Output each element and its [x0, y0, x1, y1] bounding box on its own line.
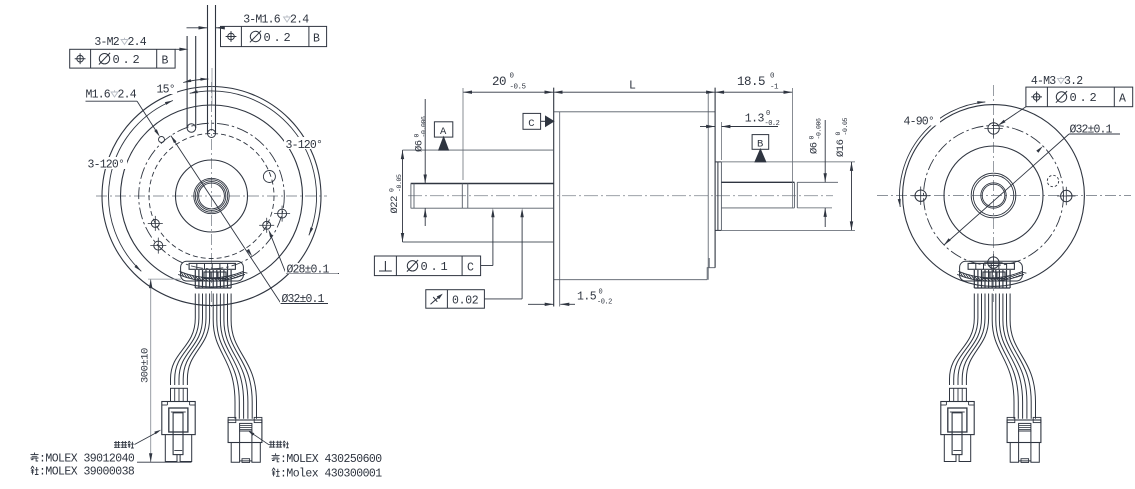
svg-text:-1: -1 [770, 84, 779, 92]
FCF perp leader [481, 265, 493, 267]
label dia32+-0.1 with diameter leader [171, 136, 281, 304]
FCF circular runout 0.02 [426, 290, 485, 309]
wire [179, 294, 203, 386]
left view vertical centerline [211, 82, 213, 310]
svg-text:-0.05: -0.05 [842, 117, 849, 135]
wire grommet body [181, 261, 244, 281]
right view bolt circle dash-dot [924, 126, 1064, 266]
datum C flag [523, 113, 541, 129]
svg-text:3.2: 3.2 [1064, 75, 1083, 88]
dimension arc 15deg [183, 79, 208, 83]
svg-text:B: B [162, 55, 169, 68]
left view body circle D41 [121, 105, 303, 287]
connector 2 plug [1019, 431, 1031, 461]
svg-text:0: 0 [599, 289, 603, 297]
front shaft groove [461, 184, 463, 209]
wire [231, 294, 256, 419]
middle view centerline [408, 195, 833, 197]
right view vertical centerline [993, 85, 995, 302]
wire [962, 294, 985, 386]
dimension dia16 0/-0.05 [851, 162, 853, 231]
left view sensor hole [263, 171, 275, 183]
connector 1 latch window [948, 408, 967, 432]
label dia28+-0.1 with leader [270, 233, 286, 274]
svg-text:0: 0 [413, 134, 420, 138]
svg-text:L: L [629, 80, 636, 93]
connector 1 legs [944, 435, 956, 462]
svg-text:0: 0 [835, 132, 842, 136]
svg-text:15°: 15° [157, 84, 175, 97]
connector label leader right [269, 441, 275, 448]
terminal pin 1 (left, from M2 hole at 105deg) [186, 36, 188, 128]
M1.6 hole at 206deg [151, 219, 159, 227]
rear boss D16 [715, 161, 721, 163]
left view hub boss circle D16 [176, 160, 248, 232]
wire [228, 294, 253, 419]
wire [217, 294, 240, 419]
M2 hole at 223deg [154, 241, 163, 250]
body left face / datum C surface [553, 88, 555, 307]
svg-text:Ø22: Ø22 [389, 196, 401, 214]
motor body outline [554, 111, 716, 113]
svg-text:Ø32±0.1: Ø32±0.1 [1070, 124, 1113, 137]
svg-text:4-90°: 4-90° [904, 116, 935, 129]
terminal pin 2 (center, from M1.6 hole at 90deg) [207, 5, 209, 134]
right view horizontal centerline [877, 195, 1131, 197]
svg-text:3-120°: 3-120° [286, 139, 323, 152]
wire [220, 294, 243, 419]
connector 2 housing (MOLEX 430250600) [1007, 420, 1041, 443]
wire [966, 294, 988, 386]
left view horizontal centerline [96, 195, 327, 197]
M3 hole top [988, 123, 999, 134]
right wire harness [941, 261, 1041, 462]
svg-text:0.1: 0.1 [421, 260, 451, 274]
svg-text:Ø16: Ø16 [835, 139, 847, 157]
svg-text:Ø6: Ø6 [414, 140, 426, 152]
dimension arc 4-90deg [899, 102, 985, 207]
svg-text:2.4: 2.4 [290, 14, 309, 27]
svg-text:300±10: 300±10 [140, 348, 152, 383]
svg-text:0: 0 [808, 136, 815, 140]
svg-text:0.2: 0.2 [1070, 91, 1100, 105]
FCF position dia0.2 A (M3) [1026, 87, 1133, 107]
dimension L (body length) [554, 91, 716, 93]
connector 1 tongue [173, 413, 183, 455]
svg-text:Ø6: Ø6 [809, 142, 821, 154]
svg-text:3-120°: 3-120° [88, 159, 125, 172]
wire [954, 294, 978, 386]
left view shaft rings [194, 178, 229, 213]
right view outer circle [903, 105, 1085, 287]
svg-text:3-M2: 3-M2 [94, 36, 119, 49]
svg-text::MOLEX 39012040: :MOLEX 39012040 [39, 452, 135, 465]
svg-text:M1.6: M1.6 [86, 89, 111, 102]
body internal line right [707, 92, 709, 280]
front shaft D6 [411, 183, 554, 185]
right view boss circle D22 [944, 146, 1043, 245]
svg-text:2.4: 2.4 [128, 36, 147, 49]
dia32 text [281, 303, 328, 305]
wire [950, 294, 975, 386]
grommet terminal row [189, 263, 235, 269]
left wire harness [31, 261, 383, 480]
wire grommet body [960, 261, 1023, 281]
svg-text:3-M1.6: 3-M1.6 [243, 14, 281, 27]
connector 2 crimp block [240, 423, 252, 431]
wire grommet hatch band [178, 274, 245, 281]
svg-text:-0.006: -0.006 [421, 116, 428, 138]
wire [187, 294, 209, 386]
datum B flag [752, 135, 769, 150]
connector 1 latch window [169, 408, 188, 432]
wire bundle upper block [194, 270, 196, 288]
wire [1007, 294, 1032, 419]
body bottom-right notch [707, 268, 715, 280]
svg-text:B: B [313, 32, 320, 45]
dimension dia22 0/-0.05 [402, 150, 404, 242]
dimension 1.3 0/-0.2 [700, 126, 715, 128]
wire [999, 294, 1022, 419]
FCF leader to M3 top hole [1000, 107, 1026, 125]
svg-text:20: 20 [492, 75, 506, 89]
M1.6 hole at -28deg [263, 221, 271, 229]
rear shaft end chamfer [793, 182, 795, 208]
connector label leader left [114, 441, 120, 448]
svg-text:4-M3: 4-M3 [1031, 75, 1056, 88]
svg-text:C: C [528, 118, 534, 130]
M2 hole at -14deg [278, 209, 287, 218]
left view bolt circle D28 dashed [149, 134, 274, 259]
connector 2 legs [231, 443, 239, 463]
svg-text:1.5: 1.5 [577, 291, 597, 304]
svg-text:0: 0 [766, 110, 770, 118]
connector 2 housing (MOLEX 430250600) [228, 420, 262, 443]
wire [1010, 294, 1035, 419]
connector 1 tongue [952, 413, 962, 455]
dimension 1.5 0/-0.2 [528, 303, 554, 305]
label dia32+-0.1 right view [944, 134, 1069, 245]
connector 1 housing (MOLEX 39012040) [950, 388, 967, 401]
svg-text:0.2: 0.2 [113, 53, 143, 67]
rear boss face [720, 162, 722, 231]
text MOLEX part numbers left [31, 453, 39, 462]
svg-text:C: C [467, 262, 474, 275]
wire [1003, 294, 1027, 419]
dimension arc 3-120 right (M1.6 holes) [190, 91, 317, 235]
svg-text::MOLEX 430250600: :MOLEX 430250600 [280, 453, 382, 466]
FCF perpendicularity dia0.1 C [374, 256, 480, 276]
svg-text:0.02: 0.02 [452, 294, 479, 307]
right view sensor hole [1047, 175, 1058, 186]
svg-text:Ø32±0.1: Ø32±0.1 [282, 293, 325, 306]
front boss cylinder D22 [403, 149, 554, 151]
svg-text:-0.2: -0.2 [765, 120, 780, 128]
wire [171, 294, 196, 386]
dimension 18.5 0/-1 [715, 91, 792, 93]
wire [224, 294, 248, 419]
wire [175, 294, 199, 386]
dimension: pin2 width at top [187, 27, 208, 29]
svg-text:18.5: 18.5 [737, 75, 765, 89]
connector 1 legs [165, 435, 177, 462]
wire [183, 294, 206, 386]
M3 hole right [1061, 190, 1072, 201]
svg-text:0: 0 [510, 73, 515, 81]
connector 2 crimp block [1019, 423, 1031, 431]
wire [996, 294, 1019, 419]
connector 2 plug [240, 431, 252, 461]
svg-text:1.3: 1.3 [745, 113, 765, 126]
svg-text:Ø28±0.1: Ø28±0.1 [287, 264, 330, 277]
svg-text::Molex 430300001: :Molex 430300001 [280, 467, 382, 480]
grommet terminal row [968, 263, 1014, 269]
FCF position dia0.2 B (M2) [70, 49, 175, 68]
text MOLEX part numbers right [272, 453, 280, 462]
svg-text:A: A [1119, 93, 1126, 106]
dimension dia6 0/-0.006 right [824, 120, 826, 182]
svg-text::MOLEX 39000038: :MOLEX 39000038 [39, 465, 135, 478]
wire [213, 294, 235, 419]
pin2 inner thread line [211, 68, 213, 104]
left view outer flange circle D49 [102, 87, 321, 306]
svg-text:-0.006: -0.006 [816, 118, 823, 140]
svg-text:-0.05: -0.05 [396, 174, 403, 192]
rear shaft D6 [721, 181, 794, 183]
M3 hole bottom [988, 257, 999, 268]
dimension 20 0/-0.5 [463, 91, 554, 93]
svg-text:2.4: 2.4 [118, 89, 137, 102]
body internal line left (1.5 step) [559, 112, 561, 307]
body right face [714, 88, 716, 268]
connector 1 housing (MOLEX 39012040) [171, 388, 188, 401]
connector 2 legs [1010, 443, 1018, 463]
svg-text:0: 0 [389, 188, 396, 192]
M3 hole left [915, 190, 926, 201]
svg-text:0: 0 [770, 73, 775, 81]
FCF runout leader [484, 298, 522, 300]
left view bolt circle D32 dash-dot [139, 123, 285, 269]
svg-text:-0.5: -0.5 [510, 84, 527, 92]
wire [992, 294, 1014, 419]
FCF leader to pin1 [175, 48, 181, 50]
datum A flag [434, 122, 452, 137]
FCF position dia0.2 B (M1.6) [221, 26, 327, 46]
wire [958, 294, 982, 386]
right view shaft rings [971, 173, 1016, 218]
dimension dia6 0/-0.006 left [424, 99, 426, 184]
svg-text:0.2: 0.2 [264, 31, 294, 45]
svg-text:-0.2: -0.2 [597, 299, 612, 307]
label M1.6 depth 2.4 with leader [84, 88, 139, 100]
wire grommet hatch band [957, 274, 1024, 281]
dimension 300+-10 [150, 279, 152, 462]
single M1.6 hole upper-left [159, 137, 165, 143]
dimension arc 3-120 left (M2 holes) [109, 101, 173, 272]
wire bundle upper block [973, 270, 975, 288]
